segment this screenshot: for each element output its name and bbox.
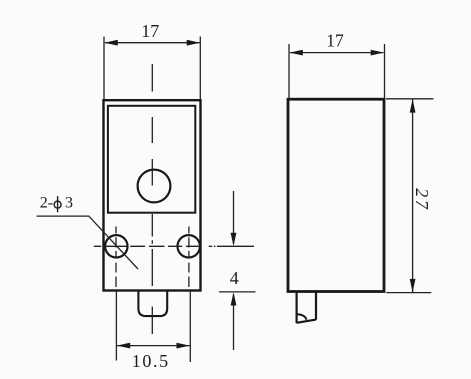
front view sensing face inner rectangle — [108, 106, 195, 213]
dimension 17 (side view) dimension line — [290, 52, 384, 54]
svg-text:3: 3 — [65, 195, 73, 212]
dimension 10.5 extension line left — [115, 292, 117, 361]
arrowhead right of front 17 — [187, 40, 200, 46]
arrowhead top of 27 — [410, 99, 416, 112]
dimension 17 (side view) extension line left — [288, 44, 290, 98]
dimension 27 extension line bottom — [386, 292, 431, 294]
front view body outline — [104, 100, 201, 290]
arrowhead left of side 17 — [290, 50, 303, 56]
dimension 27 extension line top — [386, 98, 433, 100]
mounting hole left (phi 3) — [105, 235, 127, 257]
sensing face circle — [138, 170, 171, 203]
arrowhead left of front 17 — [105, 40, 118, 46]
dimension 4 lower extension line — [219, 291, 256, 293]
dimension 27 dimension line — [412, 100, 414, 293]
svg-text:10.5: 10.5 — [132, 351, 170, 371]
arrowhead right of 10.5 — [177, 343, 190, 349]
dimension 4 lower arrow (points up) — [233, 295, 235, 351]
mounting hole right (phi 3) — [178, 235, 200, 257]
side view body outline — [288, 99, 384, 291]
leader line for hole callout 2-phi3 — [37, 216, 138, 269]
dimension 10.5 dimension line — [117, 345, 190, 347]
dimension 4 upper extension line — [217, 245, 254, 247]
arrowhead bottom of 27 — [410, 279, 416, 292]
svg-text:2-: 2- — [40, 195, 53, 212]
svg-text:27: 27 — [412, 188, 432, 211]
arrowhead left of 10.5 — [117, 343, 130, 349]
side view cable protrusion — [297, 292, 317, 324]
side view protrusion bend arc — [297, 314, 306, 319]
dimension 17 (front view width) extension line left — [103, 37, 105, 100]
vertical centerline of front view — [151, 64, 153, 334]
svg-text:17: 17 — [326, 30, 344, 50]
horizontal centerline through mounting holes — [94, 245, 216, 247]
dimension 17 extension line right — [199, 37, 201, 100]
dimension 4 upper arrow (points down) — [233, 191, 235, 244]
phi diameter symbol loop — [54, 201, 61, 208]
svg-text:17: 17 — [141, 21, 159, 41]
front view cable boss protrusion — [138, 291, 167, 316]
vertical centerline right hole — [188, 227, 190, 288]
dimension 17 dimension line — [105, 42, 200, 44]
arrowhead right of side 17 — [371, 50, 384, 56]
svg-text:4: 4 — [230, 268, 239, 288]
phi diameter symbol stroke — [57, 196, 59, 212]
dimension 10.5 extension line right — [189, 292, 191, 363]
dimension 17 (side view) extension line right — [384, 44, 386, 98]
vertical centerline left hole — [115, 227, 117, 288]
